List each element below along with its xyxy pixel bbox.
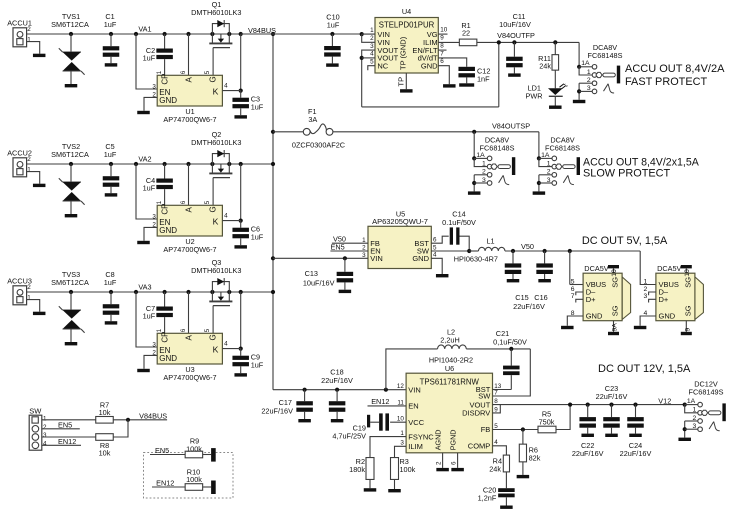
svg-text:EN12: EN12 xyxy=(58,437,76,446)
svg-text:FAST PROTECT: FAST PROTECT xyxy=(625,76,707,88)
svg-text:1uF: 1uF xyxy=(104,150,117,159)
svg-text:9: 9 xyxy=(494,406,498,413)
svg-text:6: 6 xyxy=(451,461,458,465)
svg-text:2: 2 xyxy=(27,156,31,163)
svg-text:4: 4 xyxy=(43,440,47,447)
svg-text:1uF: 1uF xyxy=(104,20,117,29)
svg-text:DC OUT 5V, 1,5A: DC OUT 5V, 1,5A xyxy=(582,235,668,247)
svg-text:1: 1 xyxy=(644,278,648,285)
svg-text:VIN: VIN xyxy=(408,385,421,394)
svg-text:EN5: EN5 xyxy=(58,420,72,429)
svg-text:2: 2 xyxy=(587,77,591,84)
svg-text:22uF/16V: 22uF/16V xyxy=(596,392,628,401)
svg-text:2: 2 xyxy=(644,286,648,293)
svg-text:10k: 10k xyxy=(99,449,111,458)
svg-text:750k: 750k xyxy=(539,417,555,426)
svg-text:24k: 24k xyxy=(539,62,551,71)
svg-text:1: 1 xyxy=(27,167,31,174)
svg-text:AP74700QW6-7: AP74700QW6-7 xyxy=(163,115,216,124)
svg-text:6: 6 xyxy=(180,328,187,332)
svg-text:VIN: VIN xyxy=(370,254,383,263)
svg-text:7: 7 xyxy=(571,293,575,300)
svg-text:A: A xyxy=(185,207,194,213)
svg-text:5: 5 xyxy=(571,278,575,285)
svg-text:4,7uF/25V: 4,7uF/25V xyxy=(332,431,366,440)
svg-text:1A: 1A xyxy=(687,398,696,405)
svg-text:SG: SG xyxy=(683,305,692,316)
svg-text:V12: V12 xyxy=(658,397,671,406)
svg-text:CP: CP xyxy=(161,203,170,214)
svg-text:3: 3 xyxy=(152,83,156,90)
svg-text:5: 5 xyxy=(204,70,211,74)
svg-text:ACCU OUT 8,4V/2A: ACCU OUT 8,4V/2A xyxy=(625,63,725,75)
svg-text:L1: L1 xyxy=(486,237,494,246)
svg-text:DMTH6010LK3: DMTH6010LK3 xyxy=(191,138,241,147)
svg-text:1: 1 xyxy=(27,295,31,302)
svg-text:10: 10 xyxy=(440,27,448,34)
svg-text:5: 5 xyxy=(204,328,211,332)
svg-text:D+: D+ xyxy=(586,295,596,304)
svg-text:100k: 100k xyxy=(400,465,416,474)
svg-text:10uF/16V: 10uF/16V xyxy=(499,20,531,29)
svg-text:GND: GND xyxy=(159,96,177,105)
svg-text:2: 2 xyxy=(482,169,486,176)
svg-text:VCC: VCC xyxy=(408,418,424,427)
svg-text:100k: 100k xyxy=(186,444,202,453)
svg-text:V50: V50 xyxy=(521,242,534,251)
svg-text:8: 8 xyxy=(494,398,498,405)
svg-text:A: A xyxy=(185,77,194,83)
svg-text:2: 2 xyxy=(27,284,31,291)
svg-text:6: 6 xyxy=(571,286,575,293)
svg-text:GND: GND xyxy=(659,312,676,321)
svg-text:0,1uF/50V: 0,1uF/50V xyxy=(493,337,527,346)
svg-text:10: 10 xyxy=(684,269,691,277)
svg-text:SG: SG xyxy=(611,305,620,316)
svg-text:PWR: PWR xyxy=(525,91,542,100)
svg-text:TP (GND): TP (GND) xyxy=(398,36,407,70)
svg-text:EN5: EN5 xyxy=(155,446,169,455)
svg-text:82k: 82k xyxy=(529,454,541,463)
svg-text:C16: C16 xyxy=(534,293,547,302)
svg-text:1: 1 xyxy=(693,407,697,414)
svg-text:6: 6 xyxy=(180,200,187,204)
svg-text:1: 1 xyxy=(547,160,551,167)
svg-text:DMTH6010LK3: DMTH6010LK3 xyxy=(191,266,241,275)
svg-text:1: 1 xyxy=(400,430,404,437)
svg-text:4: 4 xyxy=(433,252,437,259)
svg-text:3: 3 xyxy=(152,341,156,348)
svg-text:10uF/16V: 10uF/16V xyxy=(303,278,335,287)
svg-text:180k: 180k xyxy=(349,465,365,474)
svg-text:2: 2 xyxy=(27,26,31,33)
svg-text:TPS611781RNW: TPS611781RNW xyxy=(420,377,480,386)
svg-text:G: G xyxy=(208,206,217,212)
svg-text:22uF/16V: 22uF/16V xyxy=(620,449,652,458)
svg-text:FC68149S: FC68149S xyxy=(689,387,724,396)
svg-text:2: 2 xyxy=(547,169,551,176)
svg-text:10k: 10k xyxy=(99,408,111,417)
svg-text:PGND: PGND xyxy=(448,430,457,451)
svg-text:3: 3 xyxy=(400,440,404,447)
svg-text:ILIM: ILIM xyxy=(408,442,423,451)
svg-text:K: K xyxy=(213,86,219,96)
svg-text:GND: GND xyxy=(159,354,177,363)
svg-text:1: 1 xyxy=(482,160,486,167)
svg-text:C15: C15 xyxy=(515,293,528,302)
svg-text:STELPD01PUR: STELPD01PUR xyxy=(379,21,435,30)
svg-text:1uF: 1uF xyxy=(327,20,340,29)
svg-text:V84OUTFP: V84OUTFP xyxy=(497,31,535,40)
svg-text:100k: 100k xyxy=(186,475,202,484)
svg-text:CP: CP xyxy=(161,331,170,342)
svg-text:1A: 1A xyxy=(476,152,485,159)
svg-text:22uF/16V: 22uF/16V xyxy=(261,407,293,416)
svg-text:2,2uH: 2,2uH xyxy=(440,336,459,345)
svg-text:D+: D+ xyxy=(659,295,669,304)
svg-text:6: 6 xyxy=(440,58,444,65)
svg-text:EN5: EN5 xyxy=(331,242,345,251)
svg-text:SM6T12CA: SM6T12CA xyxy=(51,150,89,159)
svg-text:VA1: VA1 xyxy=(138,24,151,33)
svg-text:4: 4 xyxy=(494,439,498,446)
svg-text:AP63205QWU-7: AP63205QWU-7 xyxy=(372,217,428,226)
svg-text:C13: C13 xyxy=(305,269,318,278)
svg-text:6: 6 xyxy=(180,70,187,74)
svg-text:5: 5 xyxy=(494,423,498,430)
svg-text:1: 1 xyxy=(370,27,374,34)
svg-text:SM6T12CA: SM6T12CA xyxy=(51,278,89,287)
svg-text:2: 2 xyxy=(370,35,374,42)
svg-text:SG: SG xyxy=(611,277,620,288)
svg-text:VA2: VA2 xyxy=(138,154,151,163)
svg-text:GND: GND xyxy=(586,312,603,321)
svg-text:3: 3 xyxy=(547,177,551,184)
svg-text:EN12: EN12 xyxy=(156,479,174,488)
svg-text:HPI0630-4R7: HPI0630-4R7 xyxy=(454,255,498,264)
svg-text:FB: FB xyxy=(481,425,491,434)
svg-text:FSYNC: FSYNC xyxy=(408,432,434,441)
svg-text:4: 4 xyxy=(224,213,228,220)
svg-text:5: 5 xyxy=(370,58,374,65)
svg-text:K: K xyxy=(213,216,219,226)
svg-text:1uF: 1uF xyxy=(251,360,264,369)
svg-text:COMP: COMP xyxy=(468,442,491,451)
svg-text:NC: NC xyxy=(377,61,388,70)
svg-text:K: K xyxy=(213,344,219,354)
svg-text:3: 3 xyxy=(152,213,156,220)
svg-text:1: 1 xyxy=(587,69,591,76)
svg-text:1nF: 1nF xyxy=(477,74,490,83)
svg-text:10: 10 xyxy=(397,416,405,423)
svg-text:0ZCF0300AF2C: 0ZCF0300AF2C xyxy=(292,140,345,149)
svg-text:GND: GND xyxy=(412,254,429,263)
svg-text:3: 3 xyxy=(43,432,47,439)
svg-text:GND: GND xyxy=(159,226,177,235)
svg-text:3: 3 xyxy=(587,85,591,92)
svg-text:AGND: AGND xyxy=(433,430,442,451)
svg-text:SG: SG xyxy=(683,277,692,288)
svg-text:3: 3 xyxy=(482,177,486,184)
svg-text:GND: GND xyxy=(421,61,438,70)
svg-text:SM6T12CA: SM6T12CA xyxy=(51,20,89,29)
svg-text:EN: EN xyxy=(408,402,418,411)
svg-text:1uF: 1uF xyxy=(143,311,156,320)
svg-text:DC OUT 12V, 1,5A: DC OUT 12V, 1,5A xyxy=(598,363,691,375)
svg-text:V84OUTSP: V84OUTSP xyxy=(492,122,530,131)
svg-text:3: 3 xyxy=(693,423,697,430)
svg-text:ACCU OUT 8,4V/2x1,5A: ACCU OUT 8,4V/2x1,5A xyxy=(583,156,700,168)
svg-text:VA3: VA3 xyxy=(138,282,151,291)
svg-text:2: 2 xyxy=(693,415,697,422)
svg-text:3A: 3A xyxy=(308,115,317,124)
svg-text:5: 5 xyxy=(433,244,437,251)
svg-text:1uF: 1uF xyxy=(104,278,117,287)
svg-text:9: 9 xyxy=(440,35,444,42)
svg-text:1,2nF: 1,2nF xyxy=(478,494,497,503)
svg-text:22uF/16V: 22uF/16V xyxy=(513,302,545,311)
svg-text:4: 4 xyxy=(370,51,374,58)
svg-text:1uF: 1uF xyxy=(143,53,156,62)
svg-text:AP74700QW6-7: AP74700QW6-7 xyxy=(163,373,216,382)
svg-text:V84BUS: V84BUS xyxy=(139,411,167,420)
svg-text:2: 2 xyxy=(43,424,47,431)
svg-text:U4: U4 xyxy=(402,7,411,16)
svg-text:7: 7 xyxy=(440,50,444,57)
svg-text:7: 7 xyxy=(494,389,498,396)
svg-text:22uF/16V: 22uF/16V xyxy=(572,449,604,458)
svg-text:FC68148S: FC68148S xyxy=(480,143,515,152)
svg-text:G: G xyxy=(208,76,217,82)
svg-text:4: 4 xyxy=(224,83,228,90)
svg-text:6: 6 xyxy=(433,237,437,244)
svg-text:9A: 9A xyxy=(612,323,619,332)
svg-text:FC68148S: FC68148S xyxy=(545,143,580,152)
svg-text:FC68148S: FC68148S xyxy=(588,51,623,60)
svg-text:CP: CP xyxy=(161,73,170,84)
svg-text:24k: 24k xyxy=(489,464,501,473)
svg-text:1: 1 xyxy=(43,416,47,423)
svg-text:3: 3 xyxy=(644,293,648,300)
svg-text:10: 10 xyxy=(611,269,618,277)
svg-text:1uF: 1uF xyxy=(251,102,264,111)
svg-text:DMTH6010LK3: DMTH6010LK3 xyxy=(191,8,241,17)
svg-text:11: 11 xyxy=(397,399,404,406)
svg-text:3: 3 xyxy=(370,43,374,50)
svg-text:1uF: 1uF xyxy=(143,183,156,192)
svg-text:EN12: EN12 xyxy=(371,397,389,406)
svg-text:1A: 1A xyxy=(581,60,590,67)
svg-text:4: 4 xyxy=(224,341,228,348)
svg-text:1: 1 xyxy=(27,37,31,44)
svg-text:DISDRV: DISDRV xyxy=(462,409,490,418)
svg-text:22: 22 xyxy=(462,28,470,37)
svg-text:1A: 1A xyxy=(541,152,550,159)
svg-text:A: A xyxy=(185,335,194,341)
svg-text:DCA5V: DCA5V xyxy=(657,264,681,273)
svg-text:DCA5V: DCA5V xyxy=(584,264,608,273)
svg-text:U6: U6 xyxy=(445,364,454,373)
svg-text:0.1uF/50V: 0.1uF/50V xyxy=(442,218,476,227)
svg-text:SLOW PROTECT: SLOW PROTECT xyxy=(583,168,670,180)
svg-text:22uF/16V: 22uF/16V xyxy=(321,376,353,385)
svg-text:12: 12 xyxy=(397,383,405,390)
svg-text:SW: SW xyxy=(29,407,42,416)
svg-text:G: G xyxy=(208,334,217,340)
svg-text:TP: TP xyxy=(397,77,406,87)
svg-text:AP74700QW6-7: AP74700QW6-7 xyxy=(163,245,216,254)
svg-text:9: 9 xyxy=(684,328,691,332)
svg-text:5: 5 xyxy=(204,200,211,204)
svg-text:8: 8 xyxy=(440,43,444,50)
svg-text:1uF: 1uF xyxy=(251,232,264,241)
svg-text:2: 2 xyxy=(436,461,443,465)
